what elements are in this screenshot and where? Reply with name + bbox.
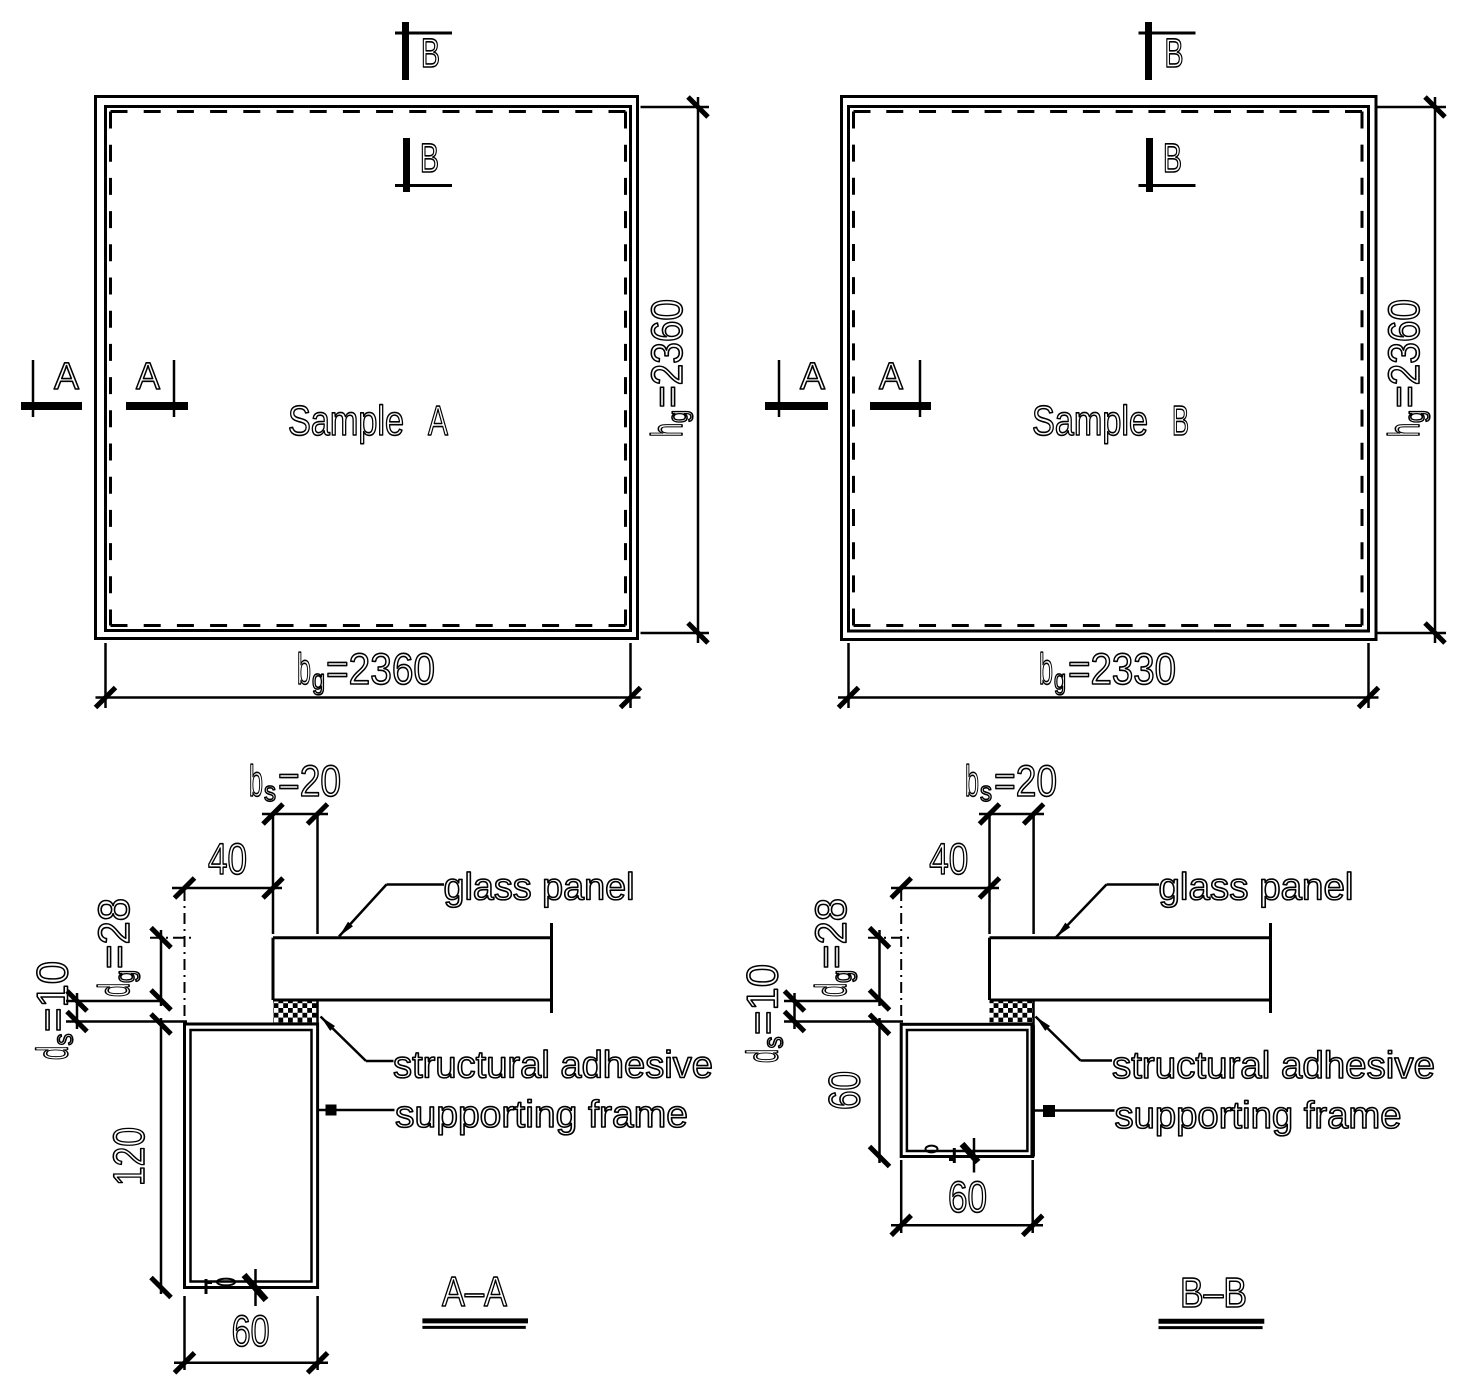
bs dimension line (A-A) <box>262 813 328 816</box>
section marker B inner: thick bar <box>403 138 410 192</box>
svg-text:s: s <box>980 776 992 807</box>
svg-text:s: s <box>48 1034 79 1046</box>
svg-text:A: A <box>136 356 161 398</box>
bs dimension line (B-B) <box>979 813 1044 816</box>
120 dimension line (A-A) <box>160 1018 163 1294</box>
60 bottom tick right (B-B) <box>1023 1215 1043 1235</box>
svg-text:g: g <box>109 970 140 983</box>
svg-text:60: 60 <box>948 1173 987 1222</box>
glass panel leader (A-A) <box>387 883 445 886</box>
glass panel leader (B-B) <box>1107 883 1160 886</box>
svg-text:A: A <box>428 397 448 444</box>
supporting frame leader (B-B) <box>1034 1109 1115 1112</box>
svg-text:b: b <box>965 757 979 806</box>
hg dimension line (B) <box>1434 97 1437 643</box>
120 text (A-A) <box>105 1127 154 1186</box>
bg dimension line (B) <box>838 696 1379 699</box>
glass panel outline (B-B) <box>990 936 1271 939</box>
ds tick bottom (A-A) <box>67 1012 87 1032</box>
svg-text:g: g <box>662 410 693 423</box>
hg dimension tick bottom (B) <box>1425 623 1445 643</box>
40 tick right (A-A) <box>263 878 283 898</box>
bg dimension extension line left (A) <box>104 643 107 708</box>
60 left text (B-B) <box>821 1071 870 1110</box>
hg dimension extension line top (A) <box>641 106 710 109</box>
svg-text:h: h <box>643 423 692 437</box>
svg-text:B: B <box>1163 135 1182 181</box>
svg-text:=10: =10 <box>29 961 78 1032</box>
60 left tick bottom (B-B) <box>870 1147 890 1167</box>
svg-text:structural adhesive: structural adhesive <box>1112 1045 1435 1087</box>
section marker A outer: thin bar <box>32 360 35 417</box>
svg-text:A: A <box>879 356 904 398</box>
section marker A inner (sample B): thick tail <box>870 402 931 410</box>
supporting frame tube inner (B-B) <box>907 1030 1028 1151</box>
60 bottom extension right (B-B) <box>1031 1160 1034 1233</box>
svg-text:B: B <box>420 135 439 181</box>
section marker A inner: thick tail <box>126 402 188 410</box>
svg-text:h: h <box>1380 423 1429 437</box>
bg dimension extension line left (B) <box>847 643 850 708</box>
dg dimension line (A-A) <box>160 930 163 1006</box>
hg dimension line (A) <box>697 97 700 643</box>
sample A inner frame rectangle (glass edge) <box>106 107 631 631</box>
svg-text:60: 60 <box>232 1307 270 1356</box>
60 tick right (A-A) <box>308 1353 328 1373</box>
hg=2360 text (B) <box>1380 299 1430 437</box>
ds=10 text (B-B) <box>739 964 789 1063</box>
structural adhesive hatch (B-B) <box>990 1002 1034 1024</box>
svg-text:d: d <box>29 1046 78 1060</box>
svg-text:b: b <box>249 757 263 806</box>
dg extension dash-dot top (A-A) <box>150 937 195 939</box>
60 left dimension line (B-B) <box>878 1018 881 1163</box>
40 tick left (B-B) <box>891 878 911 898</box>
dg tick bottom (B-B) <box>870 990 890 1010</box>
sample B outer frame rectangle <box>842 97 1377 640</box>
dg tick top (A-A) <box>151 928 171 948</box>
dg tick bottom (A-A) <box>151 990 171 1010</box>
bs tick left (A-A) <box>263 804 283 824</box>
svg-text:=10: =10 <box>739 964 788 1035</box>
bg dimension tick left (B) <box>839 688 859 708</box>
hg dimension tick top (B) <box>1425 97 1445 117</box>
title B-B underline thin <box>1159 1326 1263 1329</box>
svg-text:g: g <box>1054 664 1066 695</box>
supporting frame leader (A-A) <box>319 1109 395 1112</box>
40 centerline extension (B-B) <box>900 890 902 1022</box>
svg-text:Sample: Sample <box>288 397 404 444</box>
svg-text:A: A <box>54 356 80 398</box>
40 centerline extension (A-A) <box>184 890 186 1020</box>
120 tick top (A-A) <box>151 1014 171 1034</box>
120 tick bottom (A-A) <box>151 1278 171 1298</box>
sample B dashed glass outline <box>854 110 1363 113</box>
supporting frame tube outer (A-A) <box>185 1024 318 1288</box>
structural adhesive leader (A-A) <box>366 1060 394 1063</box>
bs extension left (A-A) <box>272 816 275 934</box>
ds tick top (B-B) <box>785 991 805 1011</box>
wall thickness mark (A-A) <box>254 1269 257 1306</box>
section marker B inner: tail line <box>395 184 452 187</box>
hg dimension tick top (A) <box>688 97 708 117</box>
bg dimension tick right (A) <box>621 688 641 708</box>
hg dimension tick bottom (A) <box>688 623 708 643</box>
svg-text:60: 60 <box>821 1071 870 1110</box>
ds extension bottom (B-B) <box>784 1020 903 1023</box>
supporting frame tube inner (A-A) <box>191 1030 312 1282</box>
bg dimension tick left (A) <box>96 688 116 708</box>
svg-text:120: 120 <box>105 1127 154 1186</box>
40 dimension line (B-B) <box>891 887 999 890</box>
svg-text:g: g <box>312 664 325 695</box>
svg-text:B: B <box>1165 30 1184 76</box>
section marker B top (sample B): tail line <box>1139 32 1196 35</box>
bg dimension tick right (B) <box>1359 688 1379 708</box>
60 bottom dimension line (B-B) <box>891 1224 1043 1227</box>
svg-text:g: g <box>826 970 857 983</box>
svg-text:=20: =20 <box>994 757 1057 806</box>
bs tick right (B-B) <box>1024 804 1044 824</box>
svg-text:40: 40 <box>208 835 247 884</box>
60 extension left (A-A) <box>183 1296 186 1370</box>
dg=28 text (B-B) <box>807 898 857 997</box>
svg-text:supporting frame: supporting frame <box>395 1094 688 1136</box>
dg extension dash-dot top (B-B) <box>868 937 911 939</box>
title A-A underline thin <box>422 1326 525 1329</box>
svg-text:=28: =28 <box>807 898 856 969</box>
dg dimension line (B-B) <box>878 930 881 1006</box>
structural adhesive leader (B-B) <box>1081 1059 1113 1062</box>
dg tick top (B-B) <box>870 928 890 948</box>
title B-B underline thick <box>1159 1319 1265 1324</box>
sample B inner frame rectangle (glass edge) <box>849 107 1369 632</box>
ds extension top (B-B) <box>784 1000 881 1003</box>
section marker B top (sample B): thick bar <box>1145 22 1152 80</box>
bg dimension extension line right (A) <box>629 643 632 708</box>
svg-text:A–A: A–A <box>442 1268 507 1315</box>
60 dimension line bottom (A-A) <box>174 1362 328 1365</box>
ds dimension line (A-A) <box>76 993 79 1029</box>
40 tick left (A-A) <box>175 878 195 898</box>
hg=2360 text (A) <box>643 299 693 437</box>
svg-text:=28: =28 <box>90 898 139 969</box>
sample A dashed glass outline <box>111 110 626 113</box>
bs tick left (B-B) <box>980 804 1000 824</box>
section marker A outer (sample B): thin bar <box>778 360 781 417</box>
bs extension right (B-B) <box>1032 816 1035 934</box>
60 extension right (A-A) <box>316 1296 319 1370</box>
60 bottom extension left (B-B) <box>900 1160 903 1233</box>
svg-text:b: b <box>1039 645 1053 694</box>
section marker A inner (sample B): thin bar <box>919 360 922 417</box>
glass panel outline (A-A) <box>273 936 552 939</box>
60 bottom tick left (B-B) <box>891 1215 911 1235</box>
section marker B inner (sample B): tail line <box>1139 184 1196 187</box>
svg-text:=2360: =2360 <box>326 645 435 694</box>
svg-text:d: d <box>739 1049 788 1063</box>
svg-text:d: d <box>807 983 856 997</box>
ds=10 text (A-A) <box>29 961 79 1060</box>
section marker B top: tail line <box>395 32 452 35</box>
section marker A outer (sample B): thick tail <box>765 402 828 410</box>
svg-text:glass panel: glass panel <box>1159 867 1354 909</box>
svg-text:g: g <box>1399 410 1430 423</box>
sample A outer frame rectangle <box>96 97 638 639</box>
svg-text:=2360: =2360 <box>1380 299 1429 408</box>
svg-text:=2360: =2360 <box>643 299 692 408</box>
svg-text:B: B <box>421 30 440 76</box>
section marker B inner (sample B): thick bar <box>1146 138 1153 192</box>
svg-text:supporting frame: supporting frame <box>1115 1095 1402 1137</box>
section marker A inner: thin bar <box>173 360 176 417</box>
40 tick right (B-B) <box>980 878 1000 898</box>
svg-text:glass panel: glass panel <box>444 866 635 908</box>
svg-text:b: b <box>297 645 311 694</box>
svg-text:=20: =20 <box>278 757 341 806</box>
section marker A outer: thick tail <box>21 402 82 410</box>
svg-text:d: d <box>90 983 139 997</box>
svg-text:structural adhesive: structural adhesive <box>393 1045 713 1087</box>
svg-text:Sample: Sample <box>1032 397 1148 444</box>
60 tick left (A-A) <box>175 1353 195 1373</box>
svg-text:A: A <box>800 356 826 398</box>
bs extension left (B-B) <box>988 816 991 934</box>
structural adhesive hatch (A-A) <box>273 1002 318 1024</box>
hg dimension extension line bottom (B) <box>1378 632 1447 635</box>
supporting frame tube outer (B-B) <box>901 1024 1032 1156</box>
ds dimension line (B-B) <box>793 993 796 1029</box>
bs tick right (A-A) <box>308 804 328 824</box>
bg dimension extension line right (B) <box>1367 643 1370 708</box>
svg-text:s: s <box>264 776 276 807</box>
title A-A underline thick <box>422 1318 528 1323</box>
ds extension bottom (A-A) <box>66 1020 187 1023</box>
ds tick bottom (B-B) <box>785 1012 805 1032</box>
svg-text:=2330: =2330 <box>1068 645 1176 694</box>
dg=28 text (A-A) <box>90 898 140 997</box>
svg-text:B: B <box>1172 397 1189 444</box>
bs extension right (A-A) <box>316 816 319 934</box>
ds tick top (A-A) <box>67 991 87 1011</box>
60 left tick top (B-B) <box>870 1014 890 1034</box>
section marker B top: thick bar <box>402 22 409 80</box>
svg-text:40: 40 <box>929 835 968 884</box>
ds extension top (A-A) <box>66 1000 163 1003</box>
hg dimension extension line bottom (A) <box>641 632 710 635</box>
40 dimension line (A-A) <box>172 887 282 890</box>
svg-text:B–B: B–B <box>1180 1269 1247 1316</box>
bg dimension line (A) <box>96 696 641 699</box>
wall thickness mark (B-B) <box>973 1138 976 1173</box>
hg dimension extension line top (B) <box>1378 106 1447 109</box>
svg-text:s: s <box>758 1037 789 1049</box>
